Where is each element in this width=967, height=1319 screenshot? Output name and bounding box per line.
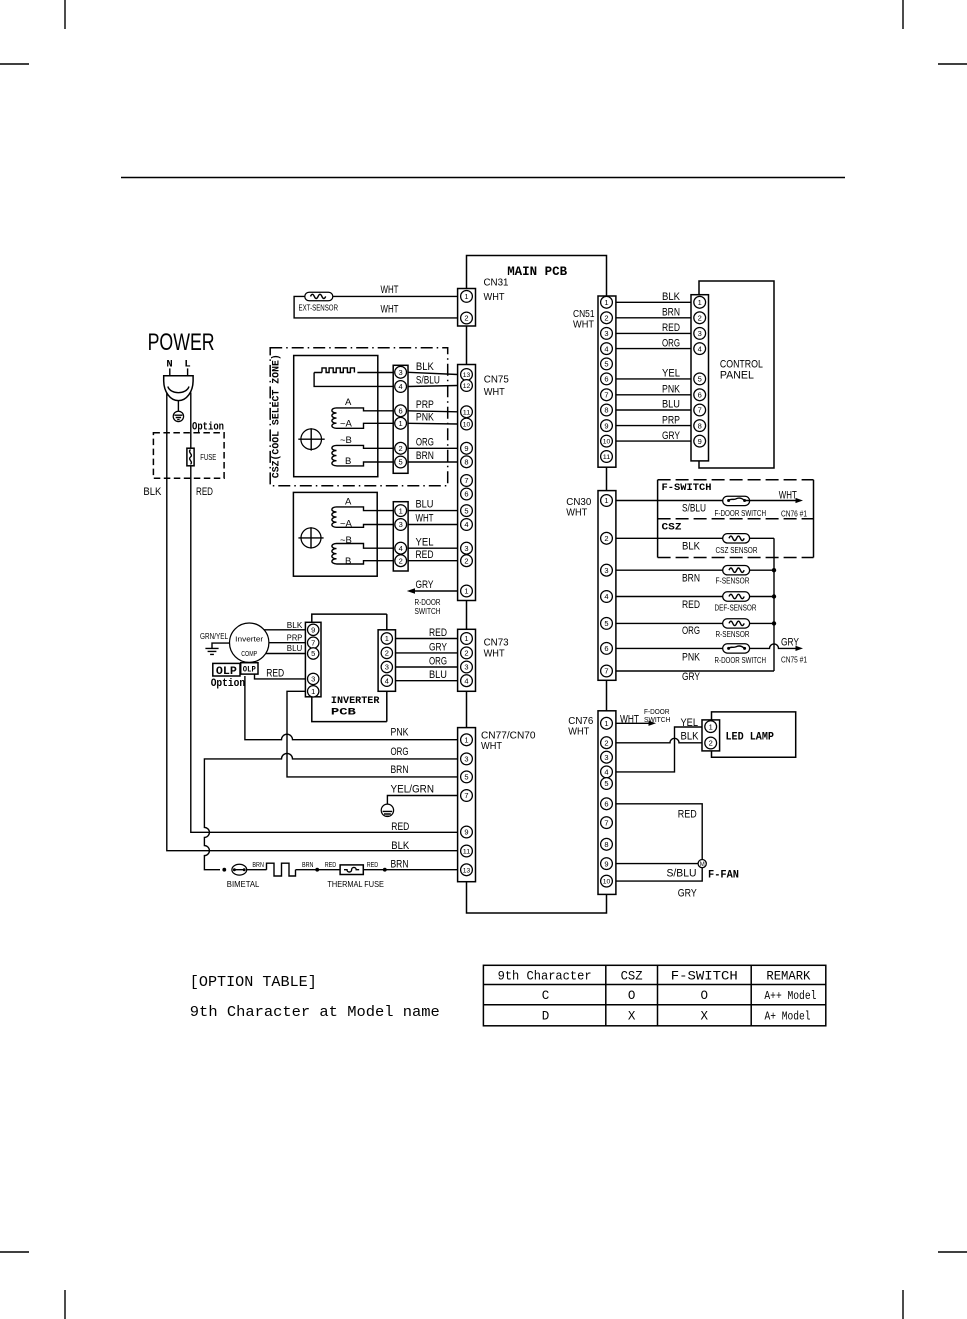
frame crop mark top-left vertical — [64, 0, 66, 29]
svg-text:BRN: BRN — [302, 860, 314, 869]
pin 2 (CN76) — [601, 737, 613, 749]
svg-text:R-DOOR SWITCH: R-DOOR SWITCH — [715, 656, 767, 665]
plug prong N — [169, 368, 171, 376]
svg-text:WHT: WHT — [484, 647, 506, 659]
wire plug to ground — [177, 401, 179, 412]
svg-text:RED: RED — [266, 668, 284, 680]
svg-text:7: 7 — [604, 667, 608, 676]
pin 5 (CN30) — [601, 618, 613, 630]
pin 5 (inverter-in) — [308, 648, 319, 659]
wire RED R2 to CN75-2 — [408, 560, 458, 562]
svg-text:C: C — [542, 989, 550, 1003]
svg-text:X: X — [701, 1009, 709, 1023]
svg-text:POWER: POWER — [148, 329, 215, 356]
ground symbol (circled earth under plug) — [173, 411, 183, 421]
svg-text:FUSE: FUSE — [200, 453, 216, 462]
pin 11 (CN75) — [461, 406, 473, 418]
svg-text:1: 1 — [464, 634, 468, 643]
svg-text:PRP: PRP — [287, 632, 303, 642]
svg-text:~B: ~B — [340, 535, 352, 546]
wire WHT EXT-SENSOR loop to CN31 pin2 — [294, 296, 458, 318]
OLP component body — [241, 663, 258, 674]
svg-text:BLK: BLK — [391, 840, 410, 852]
svg-text:BRN: BRN — [682, 573, 700, 585]
connector CN75 body — [458, 365, 476, 601]
frame crop mark bottom-left horizontal — [0, 1251, 29, 1253]
wire BRN CN30-3 to F-SENSOR and bus — [616, 569, 774, 571]
svg-text:11: 11 — [463, 409, 471, 416]
svg-text:RED: RED — [325, 860, 337, 869]
pin 8 (CN75) — [461, 456, 473, 468]
pin 1 (CN76) — [601, 717, 613, 729]
pin 9 (CN51) — [601, 420, 613, 432]
svg-text:ORG: ORG — [429, 656, 447, 668]
F-SWITCH / CSZ divider dashed — [658, 518, 814, 520]
svg-text:WHT: WHT — [484, 291, 506, 303]
connector CN77/CN70 body — [458, 728, 476, 882]
svg-text:3: 3 — [604, 329, 608, 338]
pin 10 (CN76) — [601, 875, 613, 887]
svg-text:2: 2 — [709, 739, 713, 748]
pin 1 (CN77) — [461, 734, 473, 746]
junction dot bus/R-SENSOR — [772, 621, 776, 625]
pin 3 (CN77) — [461, 753, 473, 765]
switch R-DOOR SWITCH body — [723, 644, 750, 653]
wire WHT EXT-SENSOR to CN31 pin1 — [333, 295, 458, 297]
svg-text:S/BLU: S/BLU — [682, 503, 706, 515]
coil ~B/B (CSZ damper) — [332, 445, 337, 465]
wire S/BLU CN30-1 to F-DOOR SWITCH — [616, 500, 729, 502]
svg-text:LED LAMP: LED LAMP — [726, 731, 775, 743]
svg-text:F-FAN: F-FAN — [708, 869, 739, 881]
connector inverter-in body — [305, 622, 321, 697]
svg-text:INVERTER: INVERTER — [331, 695, 380, 707]
svg-text:~A: ~A — [340, 519, 353, 530]
svg-text:11: 11 — [603, 454, 611, 461]
wire RED thermal fuse to CN77-13 — [363, 869, 457, 871]
svg-text:CSZ: CSZ — [621, 970, 643, 984]
frame crop mark bottom-right vertical — [902, 1290, 904, 1319]
svg-text:2: 2 — [464, 314, 468, 323]
sensor CSZ SENSOR body — [723, 534, 750, 543]
arrowhead GRY left — [407, 588, 415, 594]
wire BLK power lead — [167, 393, 458, 851]
svg-text:GRY: GRY — [429, 641, 447, 653]
pin 3 (CSZ plug) — [395, 366, 407, 378]
pin 9 (CN77) — [461, 826, 473, 838]
pin 4 (CSZ plug) — [395, 381, 407, 393]
svg-text:4: 4 — [385, 676, 389, 685]
wire RED CN76-6 to F-FAN — [616, 804, 702, 860]
svg-text:3: 3 — [604, 566, 608, 575]
svg-text:ORG: ORG — [416, 436, 434, 448]
svg-text:9: 9 — [604, 421, 608, 430]
pin 4 (panel) — [694, 343, 706, 355]
svg-text:F-DOOR SWITCH: F-DOOR SWITCH — [715, 509, 767, 518]
connector LED body — [702, 720, 720, 751]
pin 1 (CN73) — [461, 633, 473, 645]
pin 7 (panel) — [694, 404, 706, 416]
CSZ (COOL SELECT ZONE) dash-dot enclosure — [270, 348, 448, 486]
svg-text:BLU: BLU — [429, 669, 447, 681]
switch F-DOOR SWITCH body — [723, 496, 750, 505]
svg-text:RED: RED — [682, 599, 700, 611]
wire PNK CN30-6 to R-DOOR SWITCH, jump over bus, arrow to CN75#1 — [616, 644, 797, 649]
svg-text:1: 1 — [604, 719, 608, 728]
OLP label box — [213, 663, 240, 676]
wire ORG CSZ2 to CN75-9 — [408, 447, 458, 449]
wire BLU inverter-out4 to CN73-4 — [396, 680, 458, 682]
svg-text:PNK: PNK — [662, 384, 681, 396]
svg-text:WHT: WHT — [484, 386, 506, 398]
svg-text:GRY: GRY — [416, 579, 434, 591]
coil A/~A (R damper) — [332, 507, 337, 527]
pin 4 (CN51) — [601, 343, 613, 355]
svg-text:BRN: BRN — [416, 450, 434, 462]
connector control-panel body — [691, 295, 709, 461]
connector CN51 body — [598, 296, 616, 467]
junction dot bus/DEF-SENSOR — [772, 594, 776, 598]
pin 7 (CN77) — [461, 790, 473, 802]
svg-text:4: 4 — [604, 592, 608, 601]
svg-text:1: 1 — [464, 587, 468, 596]
svg-text:GRY: GRY — [662, 430, 680, 442]
pin 10 (CN75) — [461, 418, 473, 430]
wire RED CN51-3 to panel-3 — [616, 332, 691, 334]
sensor DEF-SENSOR body — [723, 592, 750, 601]
frame crop mark top-left horizontal — [0, 63, 29, 65]
svg-text:7: 7 — [698, 406, 702, 415]
svg-text:9: 9 — [698, 437, 702, 446]
svg-text:5: 5 — [604, 619, 608, 628]
svg-text:[OPTION TABLE]: [OPTION TABLE] — [190, 974, 317, 991]
svg-text:5: 5 — [464, 506, 468, 515]
pin 6 (CN30) — [601, 643, 613, 655]
svg-text:PRP: PRP — [662, 414, 680, 426]
wire RED power lead lower — [191, 466, 458, 833]
svg-text:RED: RED — [391, 821, 409, 833]
svg-text:3: 3 — [604, 753, 608, 762]
svg-text:RED: RED — [367, 860, 379, 869]
wire GRY CN76-10 to F-FAN — [616, 868, 702, 881]
svg-text:GRY: GRY — [682, 671, 700, 683]
pin 3 (panel) — [694, 328, 706, 340]
LED LAMP box — [712, 712, 796, 757]
pin 4 (R plug) — [395, 542, 407, 554]
svg-text:CSZ: CSZ — [662, 522, 682, 534]
svg-text:BLU: BLU — [662, 399, 680, 411]
svg-text:1: 1 — [399, 506, 403, 515]
svg-text:B: B — [345, 556, 351, 567]
svg-text:A+ Model: A+ Model — [765, 1009, 811, 1023]
svg-text:6: 6 — [464, 490, 468, 499]
svg-text:5: 5 — [604, 360, 608, 369]
CSZ damper assembly box — [294, 356, 378, 477]
pin 5 (CSZ plug) — [395, 456, 407, 468]
wire ORG CN77-3 to bimetal chain (jumps over BRN riser, RED and BLK feeds) — [204, 753, 457, 869]
svg-text:ORG: ORG — [662, 337, 680, 349]
pin 7 (CN76) — [601, 817, 613, 829]
svg-text:13: 13 — [463, 867, 471, 874]
svg-text:RED: RED — [662, 322, 680, 334]
svg-text:9: 9 — [464, 828, 468, 837]
pin 10 (CN51) — [601, 435, 613, 447]
header rule — [121, 177, 845, 179]
svg-text:1: 1 — [311, 687, 315, 696]
svg-text:F-SENSOR: F-SENSOR — [716, 577, 750, 586]
wire PNK OLP to CN77-1 (jump over BRN riser) — [245, 676, 458, 740]
pin 3 (R plug) — [395, 519, 407, 531]
wire BLK comp to inverter pin9 — [264, 629, 305, 631]
wire WHT CN76-1 arrow to F-DOOR SWITCH — [616, 722, 650, 724]
svg-text:BLK: BLK — [416, 361, 435, 373]
svg-text:Option: Option — [211, 678, 246, 690]
plug prong L — [187, 368, 189, 376]
wire YEL CN51-6 to panel-5 — [616, 378, 691, 380]
svg-text:BLK: BLK — [682, 540, 701, 552]
fuse F1 body — [187, 448, 194, 466]
wire S/BLU CN76-9 to F-FAN — [616, 863, 698, 865]
svg-text:5: 5 — [311, 649, 315, 658]
wire coil A to pin6 — [337, 408, 394, 411]
junction dot thermal fuse left — [315, 868, 319, 872]
pin 2 (CN51) — [601, 312, 613, 324]
svg-text:SWITCH: SWITCH — [415, 607, 441, 616]
svg-text:4: 4 — [464, 676, 468, 685]
svg-text:5: 5 — [399, 458, 403, 467]
wire WHT F-DOOR SWITCH to CN76#1 (arrow) — [745, 500, 797, 502]
svg-text:7: 7 — [604, 818, 608, 827]
svg-text:CN76 #1: CN76 #1 — [781, 510, 807, 519]
svg-text:BLK: BLK — [681, 730, 700, 742]
wire RED power lead upper — [190, 393, 192, 449]
CSZ enclosure bottom dashed — [658, 557, 814, 559]
pin 6 (CSZ plug) — [395, 405, 407, 417]
pin 1 (inverter-out) — [381, 633, 392, 644]
pin 6 (CN76) — [601, 798, 613, 810]
svg-text:7: 7 — [464, 791, 468, 800]
pin 7 (CN75) — [461, 475, 473, 487]
pin 3 (CN75) — [461, 542, 473, 554]
wire BLK CSZ3 to CN75-13 — [408, 372, 458, 374]
sensor R-SENSOR body — [723, 619, 750, 628]
svg-text:8: 8 — [698, 421, 702, 430]
wire YEL R4 to CN75-3 — [408, 547, 458, 549]
svg-text:5: 5 — [464, 773, 468, 782]
svg-text:YEL: YEL — [681, 717, 699, 729]
wire WHT R3 to CN75-4 — [408, 524, 458, 526]
svg-text:2: 2 — [399, 556, 403, 565]
svg-text:12: 12 — [463, 383, 471, 390]
connector CSZ damper plug body — [393, 365, 408, 473]
wire GRY inverter-out2 to CN73-2 — [396, 652, 458, 654]
svg-text:4: 4 — [399, 544, 403, 553]
svg-text:2: 2 — [399, 444, 403, 453]
svg-text:BRN: BRN — [252, 860, 264, 869]
wire RED CN30-4 to DEF-SENSOR and bus — [616, 596, 774, 598]
svg-text:M: M — [700, 862, 705, 868]
svg-text:EXT-SENSOR: EXT-SENSOR — [299, 304, 339, 313]
pin 2 (inverter-out) — [381, 647, 392, 658]
svg-text:10: 10 — [463, 422, 471, 429]
svg-text:A: A — [345, 496, 352, 507]
wire BRN CSZ5 to CN75-8 — [408, 461, 458, 463]
wire coil A to pin1 — [337, 507, 394, 511]
svg-text:O: O — [628, 989, 636, 1003]
svg-text:9th Character: 9th Character — [498, 970, 592, 984]
option table grid — [483, 965, 825, 1026]
svg-text:1: 1 — [709, 722, 713, 731]
compressor inverter COMP circle — [230, 623, 269, 662]
pin 8 (panel) — [694, 420, 706, 432]
svg-text:R-DOOR: R-DOOR — [415, 598, 441, 607]
svg-text:9: 9 — [464, 444, 468, 453]
svg-text:1: 1 — [604, 496, 608, 505]
svg-text:7: 7 — [464, 476, 468, 485]
F-SWITCH dashed enclosure — [658, 479, 814, 481]
bimetal component body — [232, 864, 247, 875]
svg-text:RED: RED — [429, 627, 447, 639]
svg-text:PCB: PCB — [331, 707, 357, 719]
MAIN PCB board outline — [467, 256, 607, 914]
wire BRN splice to thermal fuse — [296, 869, 341, 871]
svg-text:~B: ~B — [340, 435, 352, 446]
pin 5 (CN76) — [601, 778, 613, 790]
pin 3 (inverter-out) — [381, 661, 392, 672]
svg-text:1: 1 — [464, 292, 468, 301]
svg-text:8: 8 — [604, 840, 608, 849]
connector inverter-out body — [378, 630, 395, 692]
wire ORG CN30-5 to R-SENSOR and bus — [616, 622, 774, 624]
pin 1 (CN30) — [601, 495, 613, 507]
junction dot after fuse — [383, 868, 387, 872]
svg-text:BLU: BLU — [287, 643, 303, 653]
pin 1 (R plug) — [395, 505, 407, 517]
pin 9 (CN75) — [461, 442, 473, 454]
svg-text:S/BLU: S/BLU — [667, 867, 697, 879]
svg-text:4: 4 — [399, 382, 403, 391]
pin 1 (inverter-in) — [308, 686, 319, 697]
wire coil ~A to pin3 — [337, 525, 394, 528]
frame crop mark top-right horizontal — [938, 63, 967, 65]
wire YEL CN76-4 to LED pin1 — [616, 727, 702, 772]
svg-text:13: 13 — [463, 372, 471, 379]
svg-text:9: 9 — [311, 626, 315, 635]
wire GRY R-DOOR SWITCH to CN75-1 — [414, 590, 458, 592]
svg-text:8: 8 — [464, 458, 468, 467]
svg-text:1: 1 — [604, 298, 608, 307]
power plug body — [164, 376, 193, 401]
svg-text:3: 3 — [464, 755, 468, 764]
svg-text:4: 4 — [604, 344, 608, 353]
frame crop mark bottom-right horizontal — [938, 1251, 967, 1253]
svg-text:8: 8 — [604, 406, 608, 415]
svg-text:F-SWITCH: F-SWITCH — [671, 970, 738, 984]
pin 4 (inverter-out) — [381, 675, 392, 686]
motor symbol (circle-cross CSZ) — [298, 428, 324, 450]
sensor F-SENSOR body — [723, 566, 750, 575]
svg-text:2: 2 — [604, 534, 608, 543]
svg-text:3: 3 — [464, 663, 468, 672]
INVERTER PCB box — [312, 614, 387, 722]
pin 9 (inverter-in) — [308, 624, 319, 635]
svg-text:DEF-SENSOR: DEF-SENSOR — [715, 604, 757, 613]
wire YEL/GRN CN77-7 to earth — [387, 796, 457, 805]
svg-text:YEL: YEL — [416, 536, 434, 548]
wire BRN CN51-2 to panel-2 — [616, 317, 691, 319]
svg-text:OLP: OLP — [243, 665, 256, 674]
svg-text:THERMAL FUSE: THERMAL FUSE — [327, 879, 384, 889]
wire coil B to pin5 — [337, 462, 394, 466]
sensor EXT-SENSOR body — [305, 292, 333, 301]
svg-text:2: 2 — [385, 649, 389, 658]
wire BRN inverter-in1 to CN77-5 — [287, 691, 458, 777]
wire BRN bimetal to splice — [247, 869, 267, 871]
coil ~B/B (R damper) — [332, 544, 337, 564]
connector CN73 body — [458, 629, 476, 691]
svg-text:4: 4 — [604, 768, 608, 777]
pin 5 (panel) — [694, 373, 706, 385]
svg-text:YEL/GRN: YEL/GRN — [391, 783, 435, 795]
pin 1 (CN51) — [601, 296, 613, 308]
motor F-FAN symbol — [698, 860, 706, 869]
svg-text:COMP: COMP — [241, 649, 257, 658]
svg-text:3: 3 — [311, 675, 315, 684]
svg-text:REMARK: REMARK — [766, 970, 810, 984]
wire PNK CN51-7 to panel-6 — [616, 394, 691, 396]
svg-text:GRN/YEL: GRN/YEL — [200, 632, 228, 641]
motor symbol (circle-cross R) — [298, 527, 323, 548]
coil A/~A (CSZ damper) — [332, 408, 337, 428]
pin 3 (inverter-in) — [308, 673, 319, 684]
wire coil ~A to pin1 — [337, 423, 394, 428]
wire BLU R1 to CN75-5 — [408, 510, 458, 512]
pin 11 (CN77) — [461, 845, 473, 857]
power plug inner arc — [168, 387, 189, 393]
wire RED inverter-out1 to CN73-1 — [396, 638, 458, 640]
svg-text:2: 2 — [604, 738, 608, 747]
wire coil ~B to pin4 — [337, 544, 394, 549]
wire BLK CN76-2 to LED pin2 (jump at YEL riser) — [616, 738, 702, 743]
svg-text:BRN: BRN — [391, 764, 409, 776]
wire GRY CN51-10 to panel-9 — [616, 440, 691, 442]
svg-text:GRY: GRY — [781, 636, 799, 648]
svg-text:1: 1 — [698, 298, 702, 307]
pin 1 (CN75) — [461, 585, 473, 597]
wire RED OLP to inverter pin3 — [255, 674, 306, 679]
wire PRP CN51-9 to panel-8 — [616, 425, 691, 427]
svg-text:1: 1 — [464, 736, 468, 745]
svg-text:1: 1 — [385, 634, 389, 643]
pin 8 (CN76) — [601, 838, 613, 850]
svg-text:B: B — [345, 456, 351, 467]
svg-text:ORG: ORG — [391, 746, 409, 758]
svg-text:F-SWITCH: F-SWITCH — [662, 482, 712, 494]
svg-text:RED: RED — [678, 809, 697, 821]
svg-text:7: 7 — [604, 391, 608, 400]
pin 7 (CN30) — [601, 665, 613, 677]
svg-text:9th Character at Model name: 9th Character at Model name — [190, 1004, 440, 1021]
pin 5 (CN51) — [601, 358, 613, 370]
splice square-wave symbol — [267, 863, 296, 876]
wire ORG CN51-4 to panel-4 — [616, 348, 691, 350]
svg-text:5: 5 — [698, 375, 702, 384]
ground symbol (earth at compressor) — [205, 648, 218, 654]
pin 11 (CN51) — [601, 451, 613, 463]
svg-text:WHT: WHT — [566, 507, 588, 519]
svg-text:2: 2 — [464, 649, 468, 658]
wire BLU CN51-8 to panel-7 — [616, 409, 691, 411]
